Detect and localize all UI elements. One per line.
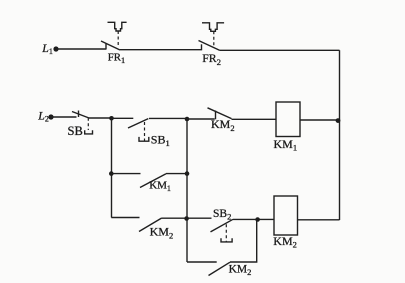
pushbutton SB1 (NO start) (128, 119, 149, 142)
junction row4 / row5 riser (255, 217, 260, 222)
wire row5 right riser (230, 220, 257, 263)
node row3 left junction (109, 171, 114, 176)
wire right bus vertical (339, 50, 341, 220)
wire L2 to SB (51, 116, 77, 118)
wire row3 left (111, 173, 140, 175)
contact KM2 (NO row5) (209, 262, 231, 275)
wire branch B vertical (186, 119, 188, 262)
svg-text:SB: SB (68, 124, 83, 138)
contact KM2 (NO self-lock row4) (139, 218, 162, 232)
junction row4 / branch B (184, 216, 189, 221)
wire branch A vertical (111, 118, 113, 217)
coil KM2 (274, 196, 298, 235)
node B junction (185, 117, 190, 122)
contact KM1 (NO self-lock) (140, 174, 166, 188)
wire KM2 contact to coil KM1 (232, 118, 277, 120)
contact FR2 (NC) (199, 41, 220, 51)
node L2 terminal (48, 114, 53, 119)
wire SB2 to coil KM2 (233, 218, 274, 220)
wire row4 left (111, 217, 139, 219)
wire node A to SB1 (112, 117, 134, 119)
junction right bus / KM1 (336, 118, 341, 123)
pushbutton SB2 (NO) (211, 219, 234, 242)
wire coil KM1 to right bus (300, 119, 340, 121)
wire node B to KM2 NC contact (187, 118, 215, 120)
thermal element FR1 (108, 22, 127, 45)
wire row4 middle (162, 217, 212, 219)
node A junction (109, 116, 114, 121)
node row3 right junction (185, 171, 190, 176)
wire coil KM2 to right bus (298, 219, 340, 221)
contact FR1 (NC) (101, 41, 120, 50)
coil KM1 (276, 102, 300, 137)
wire row5 left (187, 261, 217, 263)
pushbutton SB (NC stop) (72, 111, 93, 134)
node L1 terminal (53, 46, 58, 51)
wire L1 to FR1 contact (56, 48, 106, 50)
wire row3 right (166, 173, 187, 175)
contact KM2 (NC interlock) (208, 108, 232, 120)
wire SB1 to node B (149, 117, 187, 119)
wire FR1 to FR2 (120, 49, 202, 51)
wire FR2 to right bus (220, 49, 340, 51)
thermal element FR2 (202, 23, 224, 47)
wire SB to node A (89, 117, 112, 119)
